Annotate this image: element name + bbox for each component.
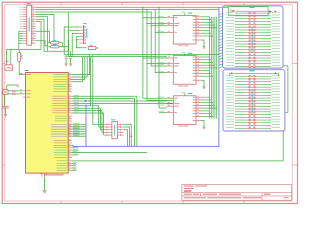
wire SV1-4 [76,37,86,48]
wire [68,40,70,51]
JP2 pin row [246,35,249,37]
ground [203,86,206,89]
JP3 pin row [246,111,249,113]
capacitor C1 plates [12,89,16,92]
wire output [201,21,213,23]
net labels PD [74,94,80,97]
wire bundle verticals [209,17,211,119]
JP2 pin row [246,15,249,17]
wire loop top box2 [230,73,279,76]
MCU pin GND bottom [41,173,43,177]
bus vertical left [85,105,87,147]
JP2 pin row [246,46,249,48]
wire PA2 long [72,152,147,154]
MCU IC1 ATmega body [26,73,69,174]
wire net D5 [36,19,44,51]
JP2 pin row [246,26,249,28]
capacitor C2 plates [12,92,16,95]
wire box link [283,66,288,112]
wire [235,119,246,121]
connector CON1 pin [23,9,27,11]
wire [235,15,246,17]
connector CON1 pin [23,37,27,39]
wire [19,33,23,35]
wire JP1 right [96,47,99,49]
wire [235,81,246,83]
wire [19,35,23,37]
MCU pin XTAL2 [23,90,26,92]
wire net D1 rail [36,9,219,11]
wire [235,37,246,39]
net labels [158,15,164,18]
wire [235,35,246,37]
JP2 pin row [246,49,249,51]
JP2 pin row [246,43,249,45]
supply loop box [228,7,268,16]
red flag [131,135,133,137]
wire [235,75,246,77]
connector CON1 pin [23,40,27,42]
wire net D3 [36,14,54,42]
wire R1 to RESET [19,61,22,74]
wire output [201,16,210,18]
junction dots [141,16,144,19]
wire rail B [68,57,166,58]
jumper JP1 [88,46,96,49]
JP3 pin row [246,100,249,102]
junction dots on rails [141,6,144,9]
wire output [201,61,213,63]
wire output [201,59,211,61]
connector CON1 pin [23,11,27,13]
wire output [201,30,210,32]
wire [235,108,246,110]
JP2 pin row [246,57,249,59]
JP2 pin row [246,54,249,56]
wire supply [236,10,270,12]
wire PD3 [72,102,174,104]
green arrow [269,10,272,12]
wire output [201,115,213,117]
JP3 pin row [246,116,249,118]
wire [235,32,246,34]
wire [19,42,23,44]
ground [69,63,72,66]
wire [19,37,23,39]
wire PD1 [72,99,135,147]
wire output [201,75,213,77]
wire XTAL2 [8,90,12,92]
wire [235,23,246,25]
wire net D6 [36,22,41,50]
connector CON1 pin [23,6,27,8]
connector CON1 pin [23,13,27,15]
wire cascade [201,120,204,126]
shift register IC4 74HC595 [173,96,196,125]
ground [65,63,68,66]
JP2 pin row [246,60,249,62]
wire [65,59,67,64]
JP3 pin row [246,86,249,88]
connector CON1 [27,5,32,45]
JP3 pin row [246,103,249,105]
supply stub VCC [184,13,186,15]
bus bend [72,145,74,147]
wire [235,78,246,80]
wire SV1-2 [68,30,79,56]
wire [235,97,246,99]
red flag [85,100,88,102]
wire SV1-1 [64,27,79,55]
wire R1 top [18,50,20,53]
wire [235,92,246,94]
JP3 pin row [246,89,249,91]
wire output [201,35,213,37]
wire [5,108,7,114]
connector CON1 pin [23,28,27,30]
pin QH' [196,39,201,41]
IC3 output pins [196,56,201,58]
wire SV1-3 [72,33,79,56]
junction marks [17,84,19,87]
ground [203,126,206,129]
wire [235,46,246,48]
frame outer border [2,2,297,203]
JP3 pin row [246,92,249,94]
JP2 pin row [246,21,249,23]
wire net D0 rail [36,6,229,8]
bus entries box1 [219,13,223,15]
wire rail to U2 [93,55,104,125]
wire stub [36,41,48,46]
JP3 pin row [246,127,249,129]
JP3 pin row [246,108,249,110]
JP3 pin row [246,105,249,107]
ground [4,113,7,116]
wire PD5 [72,108,104,130]
connector CON1 pin [23,21,27,23]
wire OE vertical [154,10,156,73]
wire tap IC3 [143,57,167,59]
wire output [201,70,210,72]
connector CON1 pin [23,16,27,18]
wire CON1 left bus [18,31,20,49]
wire [235,125,246,127]
junction [19,74,20,75]
wire PB3 up [72,57,83,82]
wire [235,51,246,53]
wire U2 out1 [124,124,131,146]
ground below MCU [43,189,47,192]
wire [10,50,12,63]
wire [235,60,246,62]
wire [235,26,246,28]
JP3 pin row [246,119,249,121]
JP2 pin row [246,29,249,31]
wire [282,131,284,161]
wire output [201,24,215,26]
title block [182,185,292,201]
IC2 left pins [167,17,174,19]
supply stub VCC [184,94,186,96]
connector CON1 pin [23,18,27,20]
IC2 output pins [196,16,201,18]
connector CON1 pin [23,25,27,27]
wire [65,55,67,57]
wire [235,49,246,51]
wire PD4 [72,106,104,127]
bus horizontal [74,145,219,147]
capacitor C4 [69,55,72,58]
red arrow flag [231,10,233,12]
wire net SCL [36,31,50,43]
wire [235,122,246,124]
wire [235,105,246,107]
capacitor C3 [65,55,68,58]
wire MR vertical [158,7,160,108]
wire output [201,107,217,109]
frame inner border [5,5,292,201]
connector SV1 pin [79,39,84,41]
resistor R1 [18,53,21,62]
wire [19,30,23,32]
wire PB0 up [72,55,90,75]
wire [6,50,8,63]
junction [62,46,63,47]
title block text [184,185,194,188]
wire [44,50,69,52]
svg-text:74HC595: 74HC595 [178,84,190,88]
JP2 pin row [246,23,249,25]
MCU pin XTAL1 [23,93,26,95]
wire [62,43,64,47]
red arrow [275,72,277,74]
crystal Q1 [3,90,8,95]
pin G1 [6,62,8,65]
connector SV1 pin [79,26,84,28]
wire output [201,32,211,34]
wire [19,40,23,42]
bus stubs PC [72,124,86,126]
U2 pins [104,123,112,125]
wire PD6 [72,111,104,133]
wire [235,111,246,113]
JP3 pin row [246,78,249,80]
JP3 pin row [246,122,249,124]
wire [235,127,246,129]
connector SV1 pin [79,42,84,44]
wire [235,103,246,105]
wire [235,57,246,59]
JP3 pin row [246,81,249,83]
IC4 output pins [196,96,201,98]
wire [235,114,246,116]
supply stub VCC [184,53,186,55]
wire [235,12,246,14]
JP3 pin row [246,94,249,96]
wire to ground [44,177,46,191]
JP2 pin row [246,12,249,14]
wire [235,43,246,45]
wire stub [77,39,79,41]
wire rail A [64,54,219,56]
wire output [201,110,210,112]
wire net D2 [36,11,151,13]
wire [235,21,246,23]
JP3 pin row [246,75,249,77]
wire [3,94,5,106]
wire [235,63,246,65]
wire [235,29,246,31]
wire output [201,56,210,58]
wire PB1 up [72,57,88,77]
pin QH' [196,119,201,121]
IC3 left pins [167,57,174,59]
JP2 pin row [246,37,249,39]
JP2 pin row [246,18,249,20]
ground [203,45,206,48]
bus vertical right [218,7,220,147]
JP2 pin row [246,63,249,65]
wire [235,94,246,96]
wire mid vertical [90,57,92,106]
svg-text:74HC595: 74HC595 [178,44,190,48]
wire [235,116,246,118]
wire PD7 [72,113,104,135]
wire branch [67,12,69,57]
wire [235,54,246,56]
connector CON1 pin [23,33,27,35]
wire U2 out3 [124,130,128,147]
shift register IC3 74HC595 [173,56,196,85]
connector SV1 pin [79,32,84,34]
wire cascade [201,80,204,86]
JP2 pin row [246,65,249,67]
wire [235,40,246,42]
wire U2 out2 [124,127,130,146]
wire output [201,104,215,106]
wire output [201,27,217,29]
wire [235,65,246,67]
JP3 pin row [246,114,249,116]
resistor R2 [51,42,59,44]
wire long PA7 [72,160,284,162]
svg-text:74HC595: 74HC595 [178,124,190,128]
wire [7,84,18,86]
wire SRCK vertical [142,7,144,98]
wire PD0 [72,96,137,146]
JP3 pin row [246,125,249,127]
wire output [201,19,211,21]
wire net D4 [36,17,48,51]
wire output [201,96,210,98]
wire stub rows [72,162,76,164]
wire output [201,67,217,69]
MCU right pins and pin-name text [68,74,72,76]
wire cascade [201,40,204,46]
MCU pin AREF [23,96,26,98]
wire PD2 [72,100,174,102]
wire tap IC2 [143,17,167,19]
wire output [201,113,211,115]
wire output [201,72,211,74]
MCU pin RESET [22,74,25,76]
pin QH' [196,79,201,81]
wire [235,83,246,85]
wire [235,18,246,20]
JP3 pin row [246,83,249,85]
connector CON1 pin [23,35,27,37]
JP2 pin row [246,32,249,34]
module frame box1 [223,6,284,68]
green arrow [231,72,234,74]
wire SER vertical [150,12,152,66]
wire VCC rail [7,49,42,51]
connector SV1 [83,25,85,44]
connector SV1 pin [79,36,84,38]
wire [235,100,246,102]
wire PA stubs [72,147,79,149]
frame ticks [60,2,62,5]
wire output [201,99,211,101]
wire [235,86,246,88]
shift register IC2 74HC595 [173,15,196,44]
capacitor C5 [3,105,9,108]
connector SV1 pin [79,29,84,31]
JP2 pin row [246,51,249,53]
JP2 pin row [246,40,249,42]
JP3 pin row [246,97,249,99]
power jack G1 [5,65,13,71]
optocoupler U2 body [112,121,118,138]
wire R2 leads [48,42,51,44]
red arrow [275,11,277,13]
wire [235,89,246,91]
wire XTAL1 [8,93,12,95]
net labels [73,122,80,125]
connector CON1 pin [23,23,27,25]
wire RCK vertical [146,10,148,101]
wire PB2 up [72,57,85,80]
module frame box2 [223,70,285,131]
IC4 left pins [167,97,174,99]
resistor R3 [51,46,59,48]
wire R3 leads [48,46,51,48]
wire output [201,64,215,66]
connector CON1 pin [23,42,27,44]
connector CON1 pin [23,30,27,32]
wire output [201,102,213,104]
wire tap IC4 [143,97,167,99]
